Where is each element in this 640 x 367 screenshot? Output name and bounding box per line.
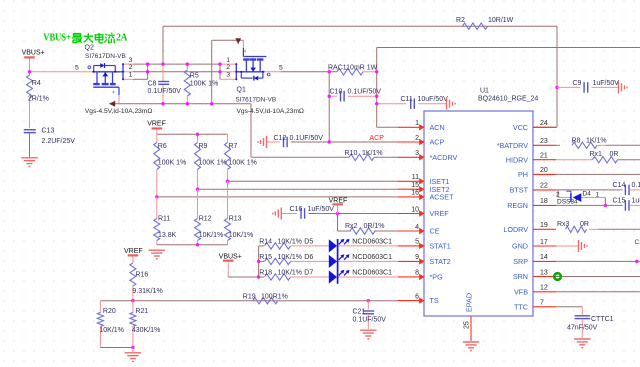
svg-text:C12: C12: [274, 135, 287, 142]
svg-text:21: 21: [540, 153, 548, 160]
svg-text:10K/1%: 10K/1%: [99, 327, 124, 334]
svg-text:R13: R13: [229, 215, 242, 222]
svg-text:22: 22: [540, 183, 548, 190]
svg-text:10uF/50V: 10uF/50V: [418, 96, 449, 103]
svg-text:9.31K/1%: 9.31K/1%: [132, 288, 162, 295]
svg-text:8: 8: [415, 270, 419, 277]
svg-text:100K 1%: 100K 1%: [158, 160, 186, 167]
svg-text:R20: R20: [103, 308, 116, 315]
svg-text:R19: R19: [243, 293, 256, 300]
svg-text:20: 20: [540, 167, 548, 174]
svg-text:7: 7: [540, 300, 544, 307]
svg-text:VREF: VREF: [124, 248, 143, 255]
svg-text:Rx3: Rx3: [557, 221, 570, 228]
svg-text:R12: R12: [199, 215, 212, 222]
svg-text:C11: C11: [401, 96, 413, 103]
svg-text:14: 14: [540, 254, 548, 261]
svg-text:ACN: ACN: [430, 123, 445, 132]
svg-text:1K/1%: 1K/1%: [362, 150, 383, 157]
svg-text:LODRV: LODRV: [503, 225, 528, 234]
svg-text:EPAD: EPAD: [465, 293, 474, 312]
svg-text:REGN: REGN: [507, 201, 528, 210]
svg-text:RAC110mR 1W: RAC110mR 1W: [328, 64, 378, 71]
svg-text:9: 9: [415, 254, 419, 261]
svg-text:Vgs-4.5V,Id-10A,23mΩ: Vgs-4.5V,Id-10A,23mΩ: [237, 108, 304, 115]
svg-text:1: 1: [415, 120, 419, 127]
svg-text:C14: C14: [613, 182, 626, 189]
svg-text:C21: C21: [353, 309, 366, 316]
svg-text:0.1UF/50V: 0.1UF/50V: [353, 317, 387, 324]
svg-text:CTTC1: CTTC1: [591, 316, 614, 323]
svg-text:HIDRV: HIDRV: [506, 155, 528, 164]
svg-text:R5: R5: [190, 72, 199, 79]
svg-text:0R/1%: 0R/1%: [364, 223, 385, 230]
svg-text:100K 1%: 100K 1%: [190, 81, 218, 88]
svg-text:18: 18: [540, 198, 548, 205]
svg-text:R15: R15: [259, 254, 272, 261]
svg-text:R14: R14: [259, 239, 272, 246]
svg-text:13.8K: 13.8K: [158, 232, 177, 239]
svg-text:D4: D4: [583, 191, 592, 198]
svg-text:19: 19: [540, 222, 548, 229]
svg-text:10K/1%: 10K/1%: [199, 232, 224, 239]
svg-text:Rx2: Rx2: [345, 223, 358, 230]
svg-text:VFB: VFB: [514, 287, 528, 296]
svg-text:DSS34: DSS34: [557, 199, 578, 206]
svg-text:VBUS+: VBUS+: [22, 50, 45, 57]
svg-text:0R: 0R: [610, 151, 619, 158]
svg-text:PH: PH: [518, 170, 528, 179]
svg-text:3: 3: [226, 71, 230, 78]
svg-text:0.1: 0.1: [632, 182, 640, 189]
svg-text:6: 6: [415, 293, 419, 300]
svg-text:4: 4: [415, 224, 419, 231]
svg-text:16: 16: [411, 190, 419, 197]
svg-text:TTC: TTC: [514, 302, 528, 311]
svg-text:17: 17: [540, 239, 548, 246]
svg-text:R7: R7: [229, 143, 238, 150]
svg-text:5: 5: [279, 64, 283, 71]
svg-text:10K/1%: 10K/1%: [278, 270, 303, 277]
svg-text:R6: R6: [158, 143, 167, 150]
svg-text:10K/1%: 10K/1%: [278, 239, 303, 246]
svg-text:ACSET: ACSET: [430, 193, 455, 202]
svg-text:C9: C9: [573, 80, 582, 87]
svg-text:0R: 0R: [580, 221, 589, 228]
svg-text:0.1UF/50V: 0.1UF/50V: [148, 88, 182, 95]
svg-text:NCD0603C1: NCD0603C1: [352, 239, 392, 246]
svg-text:Rx1: Rx1: [590, 151, 603, 158]
svg-text:R10: R10: [345, 150, 358, 157]
svg-text:VREF: VREF: [329, 197, 348, 204]
svg-text:C8: C8: [148, 80, 157, 87]
svg-text:24: 24: [540, 120, 548, 127]
svg-text:430K/1%: 430K/1%: [132, 327, 160, 334]
svg-text:D5: D5: [304, 239, 313, 246]
svg-text:13: 13: [540, 269, 548, 276]
svg-text:R8: R8: [572, 138, 581, 145]
svg-text:100K 1%: 100K 1%: [199, 160, 227, 167]
svg-text:ACP: ACP: [430, 138, 445, 147]
svg-text:U1: U1: [480, 88, 489, 95]
svg-text:BQ24610_RGE_24: BQ24610_RGE_24: [478, 96, 538, 103]
svg-text:C13: C13: [42, 128, 55, 135]
svg-text:BTST: BTST: [510, 186, 529, 195]
svg-text:C15: C15: [613, 198, 626, 205]
svg-text:VBUS+: VBUS+: [219, 253, 242, 260]
svg-text:47nF/50V: 47nF/50V: [567, 325, 598, 332]
svg-text:D6: D6: [304, 254, 313, 261]
svg-text:Vgs-4.5V,Id-10A,23mΩ: Vgs-4.5V,Id-10A,23mΩ: [85, 108, 152, 115]
svg-text:STAT2: STAT2: [430, 257, 451, 266]
svg-text:VREF: VREF: [430, 209, 450, 218]
svg-text:R16: R16: [135, 271, 148, 278]
svg-text:10R/1W: 10R/1W: [488, 17, 514, 24]
svg-text:5: 5: [415, 239, 419, 246]
svg-text:2R/1%: 2R/1%: [28, 96, 49, 103]
svg-text:NCD0603C1: NCD0603C1: [352, 270, 392, 277]
svg-text:*ACDRV: *ACDRV: [430, 153, 458, 162]
svg-text:R18: R18: [259, 270, 272, 277]
svg-text:100K 1%: 100K 1%: [229, 160, 257, 167]
svg-text:SRN: SRN: [513, 272, 528, 281]
svg-text:TS: TS: [430, 296, 439, 305]
svg-text:1: 1: [129, 71, 133, 78]
svg-text:*BATDRV: *BATDRV: [497, 141, 528, 150]
svg-text:Q2: Q2: [85, 44, 94, 51]
svg-text:R21: R21: [135, 308, 148, 315]
svg-text:1K/1%: 1K/1%: [586, 138, 607, 145]
svg-text:0.1UF/50V: 0.1UF/50V: [348, 89, 382, 96]
svg-text:1uF/50V: 1uF/50V: [593, 80, 620, 87]
svg-text:SI7617DN-VB: SI7617DN-VB: [85, 53, 126, 60]
svg-text:10K/1%: 10K/1%: [278, 254, 303, 261]
svg-text:CE: CE: [430, 227, 440, 236]
svg-text:1: 1: [596, 192, 600, 199]
svg-text:15: 15: [411, 182, 419, 189]
svg-text:3: 3: [415, 150, 419, 157]
svg-text:D7: D7: [304, 270, 313, 277]
svg-text:23: 23: [540, 138, 548, 145]
svg-text:STAT1: STAT1: [430, 242, 451, 251]
svg-text:VBUS+: VBUS+: [43, 33, 71, 44]
svg-text:2A: 2A: [116, 33, 128, 44]
svg-text:NCD0603C1: NCD0603C1: [352, 254, 392, 261]
svg-text:12: 12: [540, 285, 548, 292]
svg-text:2: 2: [556, 192, 560, 199]
svg-text:100R1%: 100R1%: [261, 293, 288, 300]
svg-text:C10: C10: [330, 89, 343, 96]
svg-text:2.2UF/25V: 2.2UF/25V: [42, 138, 76, 145]
svg-text:C16: C16: [290, 206, 303, 213]
svg-text:2: 2: [226, 64, 230, 71]
svg-text:VCC: VCC: [513, 123, 528, 132]
svg-text:*PG: *PG: [430, 273, 444, 282]
svg-text:R4: R4: [32, 80, 41, 87]
svg-text:R9: R9: [199, 143, 208, 150]
svg-text:R11: R11: [158, 215, 170, 222]
svg-text:Q1: Q1: [237, 87, 246, 94]
svg-text:VREF: VREF: [147, 120, 166, 127]
svg-text:25: 25: [464, 321, 471, 329]
svg-text:0.1UF/50V: 0.1UF/50V: [290, 135, 324, 142]
svg-text:2: 2: [415, 135, 419, 142]
svg-text:SRP: SRP: [513, 257, 528, 266]
svg-text:GND: GND: [512, 242, 528, 251]
svg-text:C1: C1: [635, 239, 640, 246]
svg-text:5: 5: [75, 64, 79, 71]
svg-text:R2: R2: [456, 17, 465, 24]
svg-text:11: 11: [412, 174, 419, 181]
svg-text:ACP: ACP: [370, 135, 385, 142]
svg-text:1uF: 1uF: [632, 198, 640, 205]
svg-text:SI7617DN-VB: SI7617DN-VB: [235, 96, 276, 103]
svg-text:2: 2: [129, 64, 133, 71]
svg-text:10K/1%: 10K/1%: [229, 232, 254, 239]
svg-text:1uF/50V: 1uF/50V: [308, 206, 335, 213]
svg-text:10: 10: [411, 206, 419, 213]
